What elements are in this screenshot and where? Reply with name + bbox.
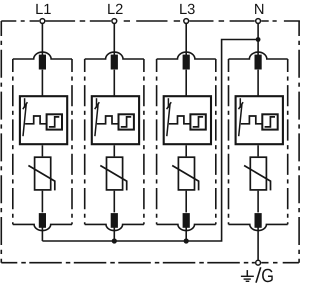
junction dot L2/bus <box>112 238 117 243</box>
frame bottom (dash-dot) <box>1 262 255 264</box>
wire N module to ground terminal <box>257 241 259 260</box>
earth bar 2 <box>244 278 251 280</box>
earth bar 1 <box>241 275 254 277</box>
svg-text:G: G <box>261 266 274 285</box>
frame top (dash-dot) <box>1 20 39 22</box>
earth bar 3 <box>246 280 250 282</box>
arrester module L3 <box>157 19 216 241</box>
svg-text:N: N <box>254 2 265 18</box>
earth symbol stem <box>246 270 248 276</box>
arrester module L2 <box>85 19 144 241</box>
ground terminal circle <box>256 260 261 265</box>
arrester module L1 <box>13 19 72 241</box>
junction dot N node <box>256 37 261 42</box>
PE bus wire from varistors to N node <box>42 40 258 242</box>
frame left (dash-dot) <box>0 21 2 263</box>
svg-text:L3: L3 <box>179 2 195 18</box>
frame right (dash-dot) <box>298 21 300 263</box>
junction dot L3/bus <box>184 238 189 243</box>
ground label slash <box>256 267 261 282</box>
svg-text:L2: L2 <box>107 2 123 18</box>
arrester module N <box>229 19 288 241</box>
svg-text:L1: L1 <box>35 2 51 18</box>
